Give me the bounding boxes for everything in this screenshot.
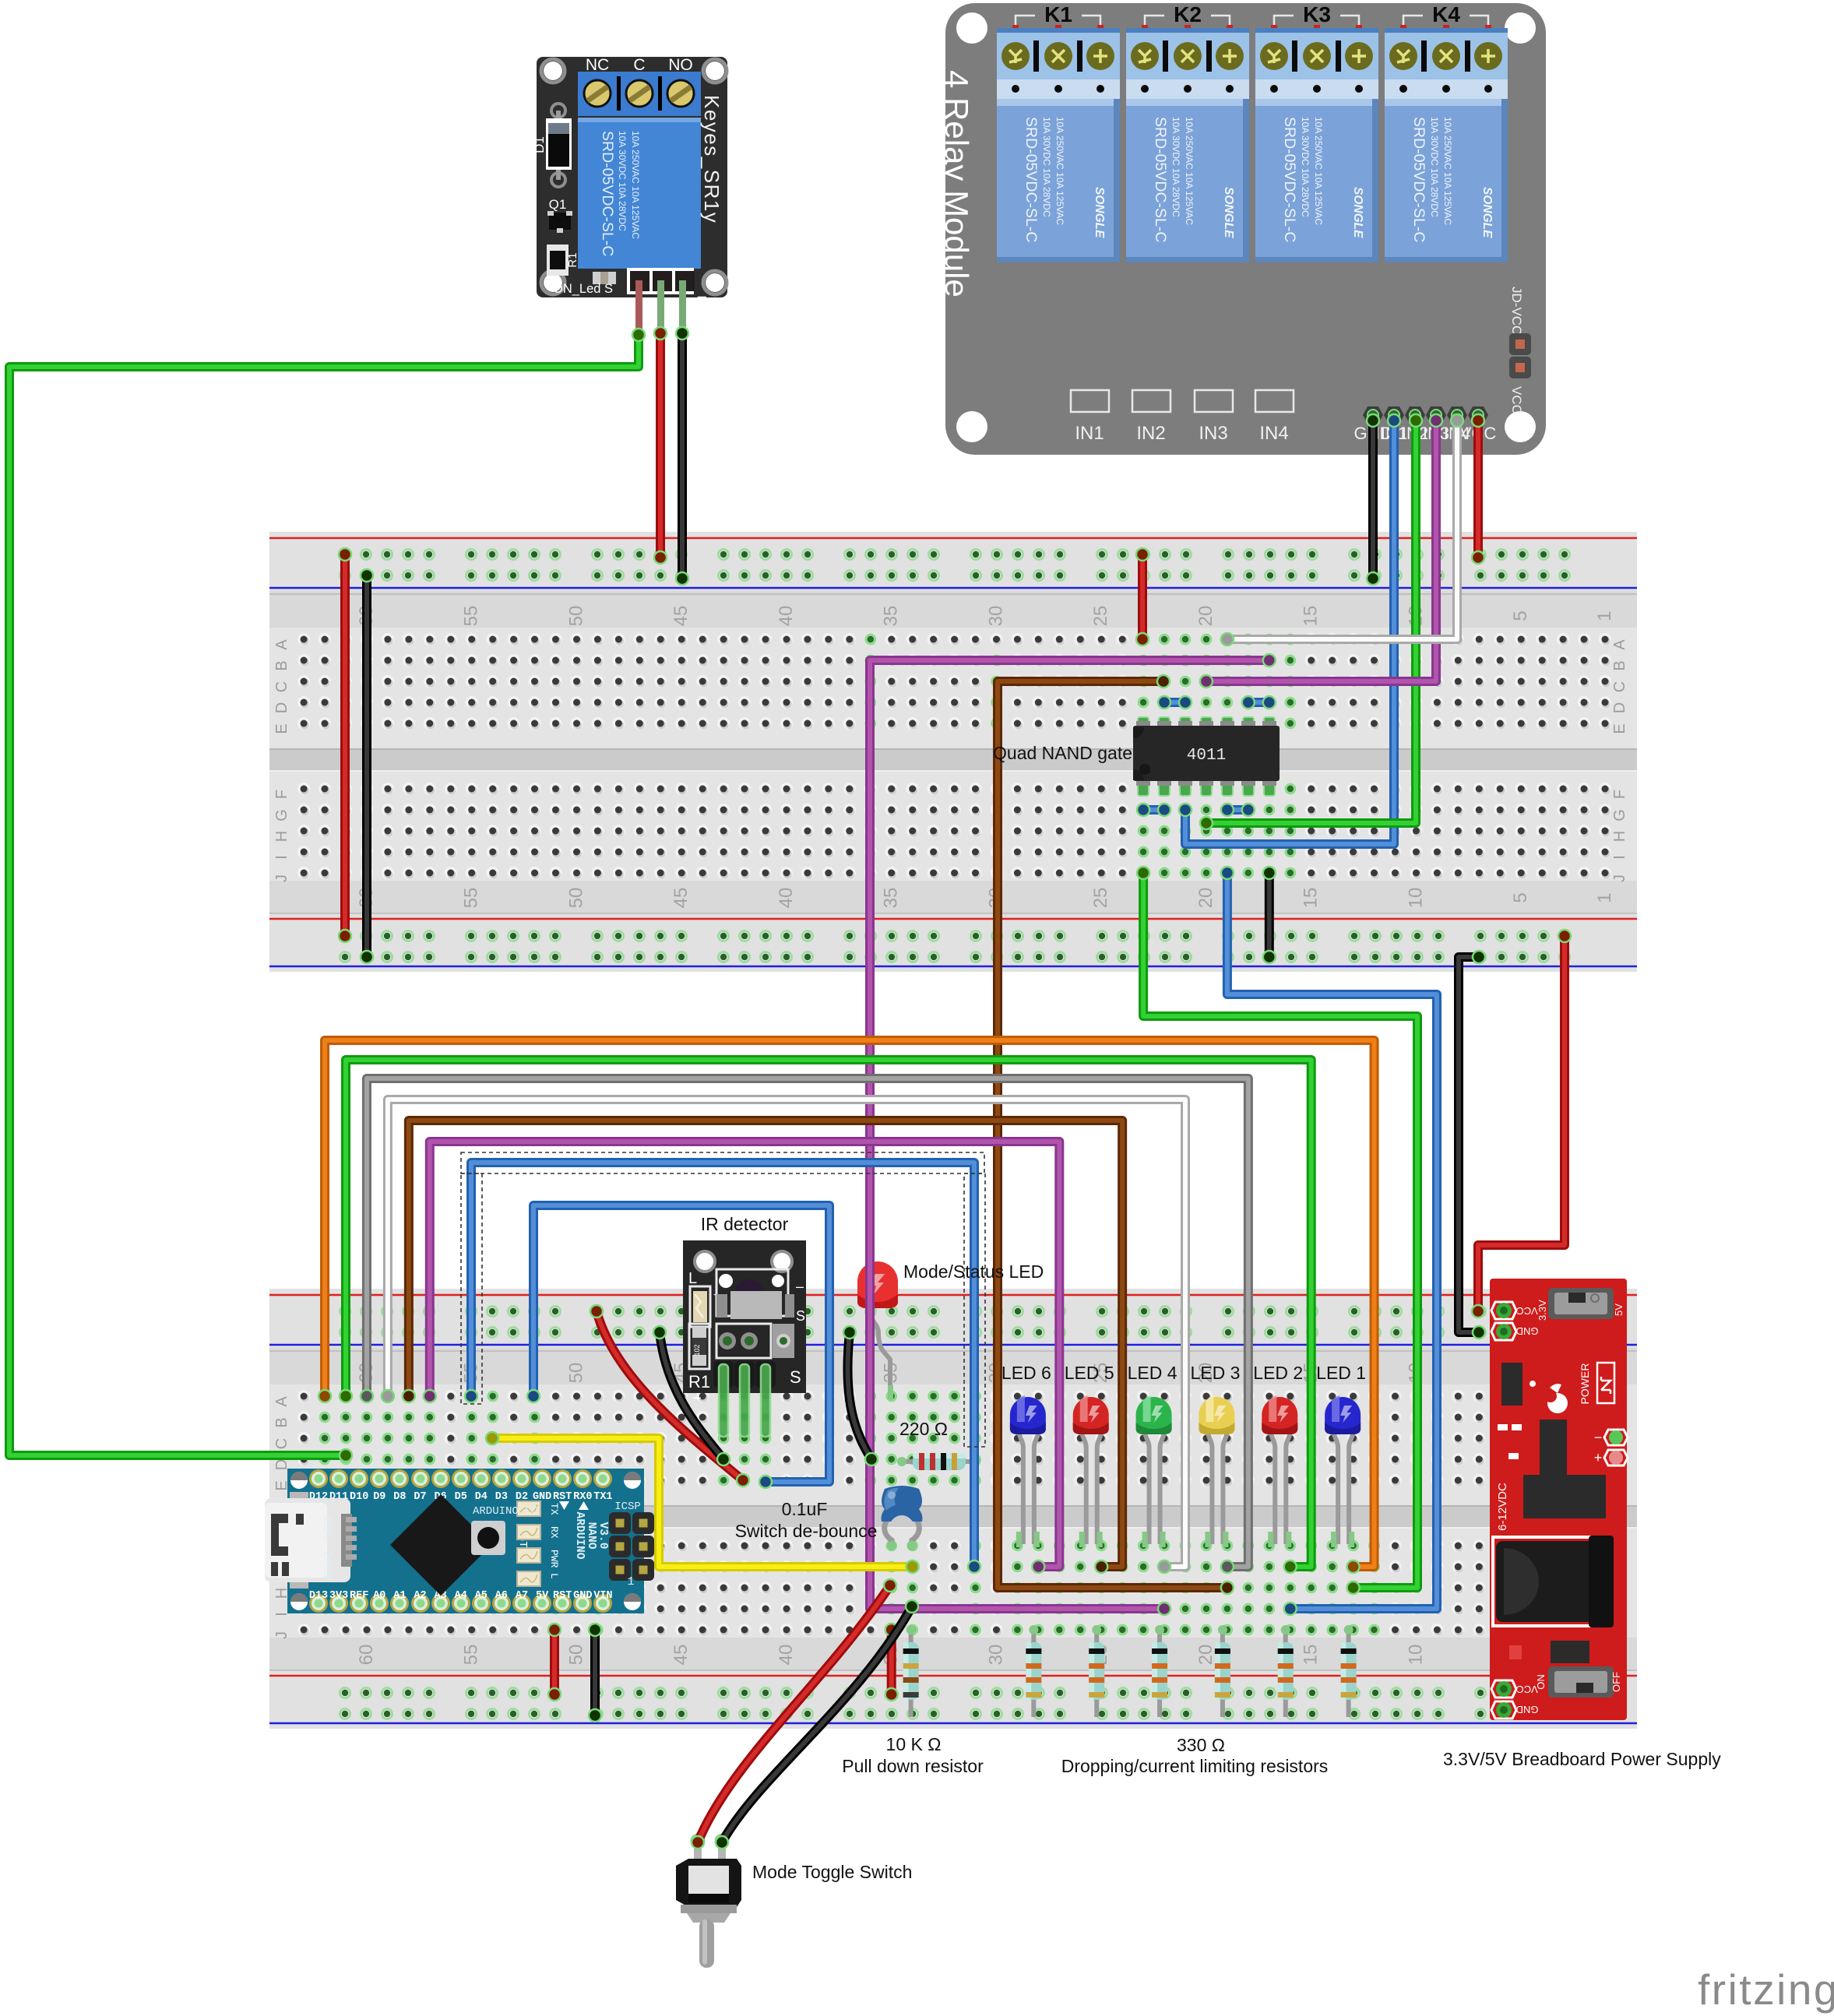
- resistor 330 #2: [1094, 1630, 1099, 1717]
- wire: red middle rail to lower rail VCC (power): [1472, 930, 1571, 1318]
- svg-text:D1: D1: [532, 136, 547, 153]
- svg-text:SONGLE: SONGLE: [1351, 187, 1364, 238]
- svg-text:Mode/Status LED: Mode/Status LED: [903, 1261, 1044, 1282]
- svg-text:NANO: NANO: [585, 1522, 597, 1550]
- svg-text:K4: K4: [1432, 2, 1460, 26]
- svg-text:B: B: [1611, 660, 1628, 670]
- svg-text:1: 1: [1594, 610, 1615, 621]
- svg-text:0.1uF: 0.1uF: [782, 1499, 828, 1519]
- svg-text:45: 45: [671, 888, 692, 909]
- wire: black J17 to bottom rail: [1263, 867, 1276, 963]
- svg-text:−: −: [1594, 1430, 1603, 1445]
- svg-text:K3: K3: [1303, 2, 1331, 26]
- svg-text:SRD-05VDC-SL-C: SRD-05VDC-SL-C: [1410, 117, 1427, 242]
- svg-text:Mode Toggle Switch: Mode Toggle Switch: [752, 1862, 912, 1882]
- wire: 4relay VCC to middle rail red row (red): [1472, 414, 1484, 564]
- svg-text:_: _: [697, 282, 706, 298]
- svg-text:10A 250VAC 10A 125VAC: 10A 250VAC 10A 125VAC: [630, 131, 641, 239]
- wire: red jumper rail to A23: [1136, 548, 1149, 646]
- svg-text:10A 250VAC 10A 125VAC: 10A 250VAC 10A 125VAC: [1313, 117, 1324, 225]
- svg-text:REF: REF: [350, 1590, 368, 1602]
- svg-text:10A 30VDC 10A 28VDC: 10A 30VDC 10A 28VDC: [1429, 117, 1440, 217]
- svg-text:RST: RST: [553, 1491, 572, 1503]
- svg-text:SRD-05VDC-SL-C: SRD-05VDC-SL-C: [1281, 117, 1298, 242]
- svg-text:A5: A5: [475, 1590, 488, 1602]
- svg-text:3V3: 3V3: [329, 1590, 348, 1602]
- svg-text:IN2: IN2: [1136, 423, 1165, 444]
- wire: middle board left rail link red: [339, 548, 351, 942]
- wire: orange D12 loop A62 to G13: [319, 1040, 1375, 1573]
- svg-text:E: E: [1611, 723, 1628, 734]
- svg-text:E: E: [273, 723, 290, 734]
- svg-text:L: L: [688, 1270, 697, 1287]
- svg-text:4011: 4011: [1187, 747, 1226, 765]
- svg-text:35: 35: [881, 606, 902, 627]
- wire: black toggle switch wire I34: [716, 1600, 918, 1849]
- wire: gray D10 loop A60 to G19: [361, 1078, 1248, 1573]
- svg-text:R1: R1: [566, 252, 579, 267]
- wire: green long J23 down to lower H13: [1137, 867, 1417, 1594]
- svg-text:ON_Led S: ON_Led S: [553, 282, 613, 296]
- svg-text:5V: 5V: [1613, 1304, 1625, 1316]
- resistor 330 #6: [1346, 1630, 1351, 1717]
- wire: red toggle switch wire H35: [692, 1579, 896, 1849]
- wire: brown long C22-C30 down to lower H19: [998, 675, 1234, 1594]
- svg-text:10A 30VDC 10A 28VDC: 10A 30VDC 10A 28VDC: [1170, 117, 1181, 217]
- svg-text:A: A: [1611, 639, 1628, 650]
- svg-text:A: A: [273, 1396, 290, 1407]
- wire: blue jumper D22-D21: [1158, 696, 1192, 709]
- svg-text:40: 40: [776, 888, 797, 909]
- LED 3: [1199, 1395, 1234, 1547]
- svg-text:IN1: IN1: [1075, 423, 1104, 444]
- wire: purple D7 loop A57 to G28: [424, 1142, 1060, 1573]
- svg-text:20: 20: [1195, 606, 1216, 627]
- svg-text:35: 35: [881, 888, 902, 909]
- svg-text:VCC: VCC: [1509, 386, 1524, 414]
- svg-text:Q1: Q1: [549, 197, 567, 212]
- svg-text:SRD-05VDC-SL-C: SRD-05VDC-SL-C: [1152, 117, 1169, 242]
- svg-text:D5: D5: [455, 1491, 467, 1503]
- IC 4011 quad NAND gate: [1133, 717, 1280, 796]
- svg-text:GND: GND: [573, 1590, 592, 1602]
- svg-text:A6: A6: [495, 1590, 508, 1602]
- breadboard lower: [269, 1289, 1637, 1729]
- svg-text:TX1: TX1: [593, 1491, 612, 1503]
- svg-text:RST: RST: [553, 1590, 572, 1602]
- svg-text:S: S: [796, 1308, 805, 1324]
- svg-text:GND: GND: [1516, 1704, 1539, 1715]
- svg-text:D7: D7: [414, 1491, 426, 1503]
- svg-text:USA: USA: [320, 1517, 333, 1538]
- svg-text:SONGLE: SONGLE: [1480, 187, 1494, 238]
- svg-text:6-12VDC: 6-12VDC: [1496, 1483, 1509, 1531]
- diode D1: [551, 104, 565, 118]
- svg-text:15: 15: [1301, 888, 1322, 909]
- svg-text:VCC: VCC: [1516, 1684, 1537, 1695]
- wire: green D11 loop A61 to G16: [340, 1060, 1311, 1573]
- svg-text:50: 50: [565, 1363, 586, 1384]
- svg-text:30: 30: [985, 1645, 1006, 1666]
- wire: relay1 + to middle top rail (red): [654, 327, 667, 564]
- svg-text:20: 20: [1195, 888, 1216, 909]
- svg-text:220 Ω: 220 Ω: [899, 1419, 948, 1439]
- wire: relay1 S to lower board D61 (green, long left loop): [9, 329, 645, 1462]
- svg-text:VIN: VIN: [593, 1590, 612, 1602]
- Arduino Nano U1: [265, 1469, 654, 1613]
- relay K3: [1255, 2, 1378, 262]
- svg-text:10A 250VAC 10A 125VAC: 10A 250VAC 10A 125VAC: [1442, 117, 1453, 225]
- svg-text:45: 45: [671, 606, 692, 627]
- svg-text:C: C: [273, 1438, 290, 1449]
- wire: purple long B17-B36 down to lower I22: [870, 654, 1276, 1615]
- svg-text:RX0: RX0: [573, 1491, 592, 1503]
- svg-text:LED 1: LED 1: [1316, 1363, 1366, 1383]
- pad IN4: [1255, 390, 1294, 412]
- svg-text:IN4: IN4: [1259, 423, 1288, 444]
- wire: 4relay IN3 (purple) to C20: [1200, 414, 1442, 688]
- pad IN2: [1132, 390, 1170, 412]
- LED 4: [1136, 1395, 1172, 1547]
- wire: red Arduino 5V to lower bottom rail: [548, 1624, 561, 1701]
- resistor R1 (on relay board): [547, 245, 569, 276]
- svg-text:50: 50: [565, 606, 586, 627]
- svg-text:1: 1: [627, 1575, 634, 1589]
- svg-text:J: J: [1611, 874, 1628, 882]
- svg-text:A4: A4: [455, 1590, 467, 1602]
- svg-text:L: L: [548, 1573, 560, 1579]
- svg-text:40: 40: [776, 606, 797, 627]
- svg-text:OFF: OFF: [1610, 1672, 1622, 1692]
- wire: brown D8 loop A58 to G25: [403, 1121, 1122, 1573]
- wire: middle board left rail link black: [361, 569, 373, 963]
- svg-text:F: F: [273, 790, 290, 799]
- wire: blue loop A52 to E41: [527, 1205, 829, 1488]
- svg-text:H: H: [1611, 831, 1628, 842]
- wire: 4relay IN4 (white) to A19: [1221, 414, 1463, 646]
- svg-text:fritzing: fritzing: [1698, 1965, 1834, 2014]
- svg-text:LED 2: LED 2: [1253, 1363, 1303, 1383]
- wire: blue long J19 down to lower I16: [1221, 867, 1437, 1615]
- svg-text:I: I: [273, 855, 290, 860]
- svg-text:VCC: VCC: [1516, 1305, 1537, 1317]
- svg-text:JD-VCC: JD-VCC: [1509, 287, 1524, 335]
- svg-text:10A 30VDC 10A 28VDC: 10A 30VDC 10A 28VDC: [1300, 117, 1311, 217]
- header GND IN1 IN2 IN3 IN4 VCC: [1354, 406, 1497, 443]
- svg-text:10: 10: [1405, 888, 1426, 909]
- svg-text:G: G: [1611, 809, 1628, 822]
- svg-text:30: 30: [985, 606, 1006, 627]
- wire: blue jumper G23-G22: [1137, 804, 1170, 816]
- svg-text:C: C: [633, 56, 645, 74]
- wire: black curve rail to D36 (mode LED): [843, 1326, 878, 1465]
- connected net hole highlights: [1284, 634, 1296, 646]
- wire: blue selected loop A55 down to G31 (dashed selection): [465, 1163, 980, 1573]
- svg-text:50: 50: [565, 888, 586, 909]
- svg-text:SONGLE: SONGLE: [1222, 187, 1235, 238]
- svg-text:3.3V/5V Breadboard Power Suppl: 3.3V/5V Breadboard Power Supply: [1443, 1749, 1721, 1769]
- 3.3V/5V breadboard power supply: [1490, 1279, 1628, 1720]
- svg-text:5: 5: [1510, 892, 1531, 902]
- LED 1: [1325, 1395, 1361, 1547]
- svg-text:K2: K2: [1174, 2, 1202, 26]
- svg-text:H: H: [273, 831, 290, 842]
- wire: 4relay GND to middle rail blue row (black): [1367, 414, 1379, 585]
- 4 Relay Module board: [938, 2, 1546, 455]
- svg-text:2009: 2009: [320, 1551, 333, 1579]
- svg-text:10 K Ω: 10 K Ω: [886, 1734, 942, 1754]
- wire: red curve rail to E row (IR supply): [590, 1305, 749, 1486]
- svg-text:Switch de-bounce: Switch de-bounce: [735, 1521, 878, 1541]
- svg-text:I: I: [1611, 855, 1628, 860]
- svg-text:RX: RX: [548, 1526, 560, 1539]
- svg-text:J: J: [273, 874, 290, 882]
- svg-text:5V: 5V: [536, 1590, 549, 1602]
- LED 6: [1010, 1395, 1046, 1547]
- svg-text:10: 10: [1405, 1645, 1426, 1666]
- svg-text:A: A: [273, 639, 290, 650]
- svg-text:GND: GND: [1516, 1325, 1539, 1337]
- svg-text:LED 5: LED 5: [1065, 1363, 1114, 1383]
- wire: blue jumper G19-G18: [1221, 804, 1255, 816]
- svg-text:C: C: [273, 681, 290, 692]
- svg-text:B: B: [273, 660, 290, 670]
- svg-text:F: F: [1611, 790, 1628, 799]
- wire: black Arduino GND to lower bottom rail: [589, 1624, 601, 1722]
- wire: blue jumper D18-D17: [1242, 696, 1276, 709]
- svg-text:10A 30VDC 10A 28VDC: 10A 30VDC 10A 28VDC: [1041, 117, 1052, 217]
- wire: 4relay IN2 (green) to H20: [1200, 414, 1422, 829]
- svg-text:102: 102: [693, 1344, 701, 1356]
- svg-text:1: 1: [1594, 892, 1615, 902]
- svg-text:D10: D10: [350, 1491, 368, 1503]
- wire: 4relay IN1 (blue) to IC pin G21: [1179, 414, 1400, 844]
- pad IN3: [1195, 390, 1233, 412]
- svg-text:PWR: PWR: [548, 1550, 560, 1568]
- relay K1: [997, 2, 1120, 262]
- svg-text:40: 40: [776, 1645, 797, 1666]
- resistor 330 #5: [1283, 1630, 1288, 1717]
- svg-text:60: 60: [356, 1645, 377, 1666]
- svg-text:IR detector: IR detector: [701, 1214, 789, 1234]
- svg-text:K1: K1: [1044, 2, 1072, 26]
- svg-text:A1: A1: [393, 1590, 406, 1602]
- svg-text:LED 6: LED 6: [1001, 1363, 1051, 1383]
- svg-text:A0: A0: [373, 1590, 385, 1602]
- svg-text:50: 50: [565, 1645, 586, 1666]
- svg-text:SRD-05VDC-SL-C: SRD-05VDC-SL-C: [1023, 117, 1040, 242]
- svg-text:LED 3: LED 3: [1190, 1363, 1240, 1383]
- svg-text:D: D: [1611, 702, 1628, 713]
- resistor 330 #1: [1031, 1630, 1036, 1717]
- Mode Toggle Switch SW1: [676, 1835, 741, 1968]
- svg-text:55: 55: [461, 1645, 482, 1666]
- wire: yellow C54 to G34: [486, 1432, 919, 1573]
- svg-text:A7: A7: [516, 1590, 528, 1602]
- capacitor C1 0.1uF: [882, 1486, 923, 1550]
- svg-text:POWER: POWER: [1579, 1363, 1591, 1405]
- relay module K? Keyes_SR1y: [532, 56, 727, 335]
- svg-text:55: 55: [461, 888, 482, 909]
- IR detector module: [683, 1240, 806, 1437]
- resistor 330 #3: [1157, 1630, 1162, 1717]
- wire: relay1 - to middle top rail (black): [676, 327, 688, 585]
- svg-text:330 Ω: 330 Ω: [1177, 1735, 1225, 1755]
- svg-text:IN3: IN3: [1199, 423, 1227, 444]
- LED 5: [1073, 1395, 1109, 1547]
- resistor 330 #4: [1220, 1630, 1225, 1717]
- resistor 10K pull down: [909, 1630, 913, 1717]
- svg-text:ICSP: ICSP: [614, 1501, 641, 1513]
- svg-text:NO: NO: [668, 56, 693, 74]
- svg-text:SONGLE: SONGLE: [1093, 187, 1106, 238]
- svg-text:B: B: [273, 1417, 290, 1427]
- relay K2: [1126, 2, 1249, 262]
- svg-text:D: D: [273, 702, 290, 713]
- svg-text:55: 55: [461, 606, 482, 627]
- wire: black curve rail to D43: [653, 1326, 730, 1465]
- svg-text:S: S: [790, 1367, 801, 1387]
- svg-text:5: 5: [1510, 610, 1531, 621]
- svg-text:15: 15: [1301, 606, 1322, 627]
- svg-text:10A 30VDC 10A 28VDC: 10A 30VDC 10A 28VDC: [617, 131, 628, 231]
- svg-text:ARDUINO: ARDUINO: [573, 1512, 586, 1560]
- svg-text:NC: NC: [586, 56, 609, 74]
- svg-text:ARDUINO.CC: ARDUINO.CC: [473, 1505, 538, 1518]
- svg-text:4 Relay Module: 4 Relay Module: [938, 70, 975, 297]
- svg-text:Keyes_SR1y: Keyes_SR1y: [700, 95, 723, 223]
- svg-text:LED 4: LED 4: [1128, 1363, 1177, 1383]
- svg-text:+: +: [1594, 1450, 1603, 1465]
- LED 2: [1262, 1395, 1297, 1547]
- Mode/Status LED: [857, 1261, 898, 1399]
- svg-text:–: –: [796, 1279, 804, 1294]
- svg-text:A2: A2: [414, 1590, 426, 1602]
- svg-text:20: 20: [1195, 1645, 1216, 1666]
- svg-text:25: 25: [1090, 606, 1111, 627]
- svg-text:D3: D3: [495, 1491, 508, 1503]
- pad IN1: [1071, 390, 1109, 412]
- svg-text:Pull down resistor: Pull down resistor: [842, 1756, 984, 1776]
- svg-text:C: C: [1611, 681, 1628, 692]
- wire: black middle rail to lower rail GND (power): [1459, 951, 1485, 1339]
- wire: red jumper J35 to rail: [885, 1624, 898, 1701]
- svg-text:15: 15: [1301, 1645, 1322, 1666]
- svg-text:Dropping/current limiting resi: Dropping/current limiting resistors: [1061, 1756, 1329, 1776]
- svg-text:10A 250VAC 10A 125VAC: 10A 250VAC 10A 125VAC: [1054, 117, 1065, 225]
- breadboard middle: [269, 532, 1637, 972]
- svg-text:–: –: [693, 1389, 701, 1405]
- resistor 220 ohm: [902, 1459, 976, 1464]
- svg-text:J: J: [273, 1631, 290, 1639]
- svg-text:TX: TX: [548, 1503, 560, 1515]
- svg-text:SRD-05VDC-SL-C: SRD-05VDC-SL-C: [599, 131, 616, 256]
- svg-text:3.3V: 3.3V: [1537, 1300, 1548, 1321]
- svg-text:45: 45: [671, 1645, 692, 1666]
- svg-text:D4: D4: [475, 1491, 488, 1503]
- svg-text:Quad NAND gate: Quad NAND gate: [993, 743, 1132, 763]
- svg-text:10A 250VAC 10A 125VAC: 10A 250VAC 10A 125VAC: [1184, 117, 1195, 225]
- svg-text:25: 25: [1090, 888, 1111, 909]
- relay K4: [1385, 2, 1508, 262]
- svg-text:D9: D9: [373, 1491, 385, 1503]
- svg-text:D13: D13: [309, 1590, 328, 1602]
- svg-text:D8: D8: [393, 1491, 406, 1503]
- wire: white D9 loop A59 to G22: [382, 1099, 1185, 1573]
- svg-text:V3.0: V3.0: [597, 1522, 609, 1550]
- svg-text:G: G: [273, 809, 290, 822]
